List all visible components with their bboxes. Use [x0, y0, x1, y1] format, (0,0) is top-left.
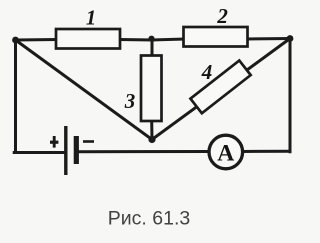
battery minus sign — [83, 140, 94, 143]
resistor 4 — [190, 60, 250, 113]
node left — [12, 37, 19, 44]
svg-text:A: A — [217, 141, 234, 167]
wire ammeter to bottom-right corner — [243, 150, 291, 153]
wire right vertical — [289, 39, 292, 152]
svg-text:1: 1 — [86, 6, 97, 30]
wire battery to ammeter — [77, 150, 208, 153]
svg-text:Рис. 61.3: Рис. 61.3 — [108, 208, 190, 230]
svg-text:2: 2 — [216, 4, 228, 28]
battery short plate (-) — [74, 136, 79, 164]
wire: resistor 3 down to bottom node — [150, 120, 153, 140]
resistor 1 — [56, 29, 120, 49]
battery long plate (+) — [64, 126, 67, 175]
wire: resistor 2 to right node — [247, 37, 290, 41]
svg-text:4: 4 — [201, 60, 213, 84]
battery plus sign — [50, 141, 58, 144]
wire top-left: left node to resistor 1 — [16, 38, 58, 42]
wire bottom-left to battery — [14, 151, 66, 154]
svg-text:3: 3 — [124, 89, 136, 113]
ammeter A1 — [209, 135, 243, 169]
wire: top junction to resistor 2 — [152, 39, 185, 40]
wire: resistor 1 to top junction — [119, 38, 153, 42]
node right — [287, 35, 294, 42]
wire left diagonal: left node to bottom node — [16, 40, 153, 140]
node bottom — [148, 136, 155, 143]
resistor 2 — [184, 27, 248, 47]
wire right diagonal: bottom node to right node (passes under resistor 4) — [152, 39, 290, 140]
wire: junction down to resistor 3 — [151, 39, 154, 56]
node top junction — [148, 36, 154, 42]
wire left vertical — [14, 40, 17, 153]
resistor 3 — [141, 56, 162, 122]
